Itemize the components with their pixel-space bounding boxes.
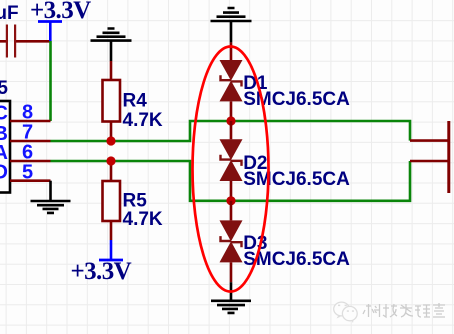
watermark text 科技老顽童 — [363, 303, 445, 317]
power +3.3V bottom — [71, 240, 132, 285]
svg-text:+3.3V: +3.3V — [71, 258, 132, 285]
svg-text:U5: U5 — [0, 78, 8, 99]
ground above R4 — [91, 29, 132, 62]
svg-text:0.1uF: 0.1uF — [0, 3, 19, 24]
TVS diode D1 — [220, 42, 351, 121]
svg-text:6: 6 — [22, 142, 33, 164]
pin 6 — [10, 142, 51, 164]
pin 5 — [10, 161, 51, 183]
pin 8 — [10, 102, 51, 124]
svg-text:7: 7 — [22, 122, 33, 144]
TVS diode D3 — [220, 201, 351, 282]
connector stub B — [410, 139, 448, 142]
svg-text:+3.3V: +3.3V — [30, 0, 91, 24]
resistor R5 — [103, 161, 163, 240]
connector stub A — [410, 160, 448, 163]
svg-text:8: 8 — [22, 102, 33, 124]
pin 7 — [10, 122, 51, 144]
resistor R4 — [103, 61, 163, 141]
svg-text:C: C — [0, 103, 8, 125]
wire pin8 net vertical — [49, 41, 52, 121]
wire net A (pin6 to right) — [51, 161, 411, 201]
highlight ellipse — [193, 47, 269, 292]
connector J1 edge — [447, 121, 450, 193]
svg-text:D: D — [0, 162, 8, 184]
svg-text:4.7K: 4.7K — [123, 110, 163, 131]
ground below pin 5 — [31, 181, 71, 213]
junction R5-A — [106, 156, 115, 165]
svg-text:SMCJ6.5CA: SMCJ6.5CA — [243, 169, 350, 190]
svg-text:A: A — [0, 142, 8, 164]
capacitor C (0.1uF) — [0, 3, 51, 58]
junction D1-B — [226, 116, 235, 125]
svg-text:5: 5 — [22, 161, 33, 183]
junction D2-A — [226, 196, 235, 205]
TVS diode D2 — [220, 121, 351, 201]
ground above D1 — [211, 8, 252, 42]
ground below D3 — [211, 282, 251, 313]
IC U5 — [0, 78, 10, 193]
power +3.3V top — [30, 0, 91, 41]
svg-text:R4: R4 — [123, 91, 148, 112]
watermark wechat icon — [334, 302, 357, 323]
wire net B (pin7 to right) — [51, 121, 411, 141]
svg-text:4.7K: 4.7K — [123, 209, 163, 230]
junction R4-B — [106, 136, 115, 145]
